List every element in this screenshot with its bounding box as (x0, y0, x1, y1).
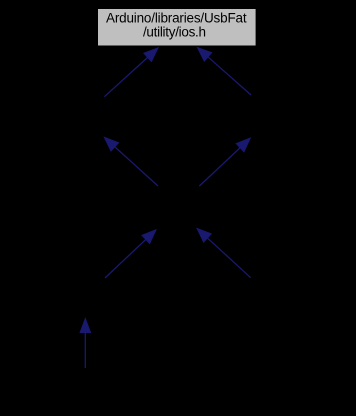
node ios.h (current file box) (98, 9, 257, 47)
edge node4 -> node3 (199, 138, 250, 186)
edge node4 -> node2 (104, 137, 158, 186)
edge node2 -> ios.h (left) (104, 48, 158, 97)
svg-text:/utility/ios.h: /utility/ios.h (143, 25, 206, 40)
edge node5 -> node4 (left) (105, 230, 156, 278)
svg-text:Arduino/libraries/UsbFat: Arduino/libraries/UsbFat (106, 11, 247, 26)
edge node6 -> node4 (right) (197, 229, 251, 278)
edge node7 -> node5 (vertical) (80, 319, 90, 369)
edge node3 -> ios.h (right) (198, 48, 252, 95)
